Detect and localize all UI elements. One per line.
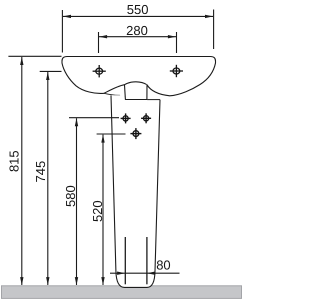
arrowhead pointing left xyxy=(147,272,155,275)
extension line right xyxy=(176,32,178,53)
waste outlet extension line right (80 dim) xyxy=(146,237,148,284)
extension line left xyxy=(61,10,63,53)
arrowhead right xyxy=(205,15,213,18)
pedestal xyxy=(111,95,160,287)
arrowhead down xyxy=(101,277,104,285)
svg-text:580: 580 xyxy=(63,185,78,207)
tap hole crosshair right xyxy=(170,65,183,77)
dimension line xyxy=(99,36,176,38)
arrowhead pointing right xyxy=(117,272,125,275)
svg-text:815: 815 xyxy=(7,150,22,172)
dimension line xyxy=(63,15,213,17)
arrowhead left xyxy=(63,15,71,18)
arrowhead down xyxy=(20,277,23,285)
dimension 520 xyxy=(97,134,126,285)
extension line xyxy=(97,133,126,135)
dimension 280 xyxy=(99,32,177,53)
svg-text:280: 280 xyxy=(126,23,148,38)
arrowhead down xyxy=(46,277,49,285)
dimension line xyxy=(21,57,23,285)
basin outline xyxy=(62,57,216,96)
dimension 580 xyxy=(69,118,119,286)
arrowhead left xyxy=(99,35,107,38)
extension line left xyxy=(98,32,100,53)
drain / overflow box xyxy=(125,85,148,100)
dimension line right part xyxy=(147,272,180,274)
dimension line left part xyxy=(110,272,125,274)
arrowhead down xyxy=(75,277,78,285)
pedestal fixing hole upper-left xyxy=(121,113,131,123)
basin underside shelf line xyxy=(104,93,125,97)
extension line right xyxy=(213,10,215,50)
dimension line xyxy=(76,118,78,285)
pedestal fixing hole lower xyxy=(130,128,141,139)
extension line xyxy=(40,70,62,72)
dimension 550 xyxy=(62,10,213,53)
dimension line middle part xyxy=(125,272,147,274)
ground / floor bar xyxy=(2,286,242,299)
arrowhead up xyxy=(46,72,49,80)
dimension 80 xyxy=(110,272,180,275)
dimension line xyxy=(47,72,49,285)
svg-text:745: 745 xyxy=(33,161,48,183)
tap hole crosshair left xyxy=(93,65,106,77)
svg-text:550: 550 xyxy=(127,2,149,17)
extension line xyxy=(69,117,119,119)
pedestal fixing hole upper-right xyxy=(141,113,151,123)
arrowhead up xyxy=(75,118,78,126)
waste outlet extension line left (80 dim) xyxy=(124,237,126,284)
dimension 745 xyxy=(40,71,62,285)
svg-text:80: 80 xyxy=(156,257,170,272)
arrowhead up xyxy=(101,135,104,143)
arrowhead right xyxy=(168,35,176,38)
extension line at basin rim top xyxy=(8,55,61,57)
dimension 815 xyxy=(8,56,61,285)
arrowhead up xyxy=(20,57,23,65)
dimension line xyxy=(102,135,104,285)
svg-text:520: 520 xyxy=(90,200,105,222)
